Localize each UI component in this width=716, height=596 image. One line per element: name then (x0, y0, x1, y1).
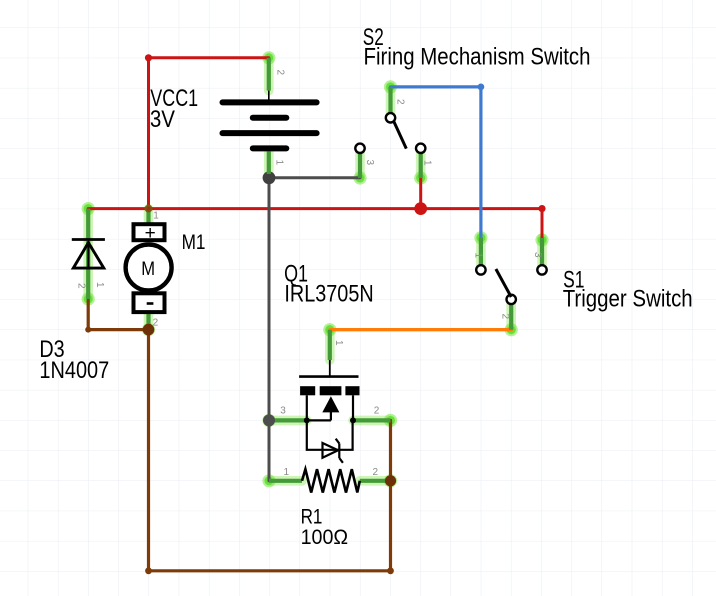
svg-text:1: 1 (153, 210, 159, 221)
svg-text:2: 2 (500, 314, 511, 320)
svg-text:2: 2 (275, 70, 286, 76)
svg-text:2: 2 (395, 99, 406, 105)
node brown small dot bottom left (145, 567, 152, 574)
wire blue S2 pin2 to S1 pin1 horizontal (391, 85, 481, 88)
wire gray battery to S2 pin3 (269, 176, 360, 179)
Q1 pin2 stub (353, 418, 391, 422)
svg-text:1: 1 (94, 282, 105, 288)
switch S2 pin2 circle (386, 113, 395, 122)
switch S2 pin3 circle (355, 144, 364, 153)
wire red VCC top horizontal (149, 56, 269, 59)
svg-text:Firing Mechanism Switch: Firing Mechanism Switch (364, 43, 591, 70)
switch S2 common circle (416, 144, 425, 153)
S2 pin3 stub (358, 153, 362, 178)
motor M1 minus box (134, 293, 165, 312)
S1 pin3 stub (540, 238, 544, 266)
svg-text:3: 3 (364, 160, 375, 166)
node gray dot battery junction (263, 171, 276, 184)
diode pin2 stub (86, 241, 90, 299)
svg-text:1: 1 (274, 160, 285, 166)
pin highlight glow underlay (82, 51, 549, 487)
wire gray Q1 pin3 down to R1 pin1 (268, 420, 271, 480)
svg-text:2: 2 (153, 317, 159, 328)
node brown big dot R1 pin2 junction (385, 475, 396, 486)
svg-text:1: 1 (422, 160, 433, 166)
wire brown diode to motor bottom (88, 299, 148, 330)
S1 pin2 stub (509, 304, 513, 330)
node red junction big dot (414, 202, 427, 215)
node brown big dot motor minus junction (143, 324, 155, 336)
svg-text:1: 1 (333, 340, 344, 346)
svg-text:Trigger Switch: Trigger Switch (563, 285, 693, 312)
battery pin1 stub (267, 152, 271, 175)
S2 pin1 stub (419, 153, 423, 178)
R1 pin1 stub (269, 479, 302, 483)
svg-text:M1: M1 (182, 230, 206, 254)
switch S1 pin1 circle (476, 265, 485, 274)
svg-text:3: 3 (280, 405, 286, 416)
svg-text:2: 2 (76, 283, 87, 289)
svg-text:100Ω: 100Ω (301, 525, 349, 549)
wire brown right vertical Q1 pin2 down (389, 420, 392, 570)
wire red bus horizontal (88, 207, 542, 210)
battery VCC1 (223, 91, 317, 149)
svg-text:+: + (145, 223, 156, 244)
motor M1 plus box (134, 224, 165, 240)
motor M1 body circle (126, 245, 172, 291)
node brown small dot bottom right (387, 567, 394, 574)
node blue corner dot (478, 84, 485, 91)
diode pin1 stub (86, 209, 90, 239)
svg-text:1: 1 (284, 467, 290, 478)
svg-text:IRL3705N: IRL3705N (284, 281, 373, 308)
motor M1 minus sign (147, 302, 154, 305)
motor pin1 stub (146, 209, 150, 224)
mosfet Q1 symbol (299, 360, 359, 463)
R1 pin2 stub (360, 479, 391, 483)
node VCC corner dot (145, 54, 152, 61)
svg-text:2: 2 (374, 405, 380, 416)
svg-text:2: 2 (373, 467, 379, 478)
switch S1 pin3 circle (537, 265, 546, 274)
svg-text:3: 3 (532, 252, 543, 258)
wire brown motor down left rail (149, 330, 391, 571)
wire red bus corner down to S1 pin3 (541, 209, 544, 238)
wire blue vertical (479, 87, 482, 238)
node olive junction dot motor pin1 / red bus (145, 205, 153, 213)
switch S2 lever (394, 121, 407, 148)
node brown small dot diode corner (85, 327, 91, 333)
resistor R1 zigzag (302, 469, 360, 492)
svg-text:M: M (141, 258, 155, 280)
wire red VCC left vertical (147, 58, 150, 209)
S1 pin1 stub (479, 238, 483, 266)
battery pin2 stub (267, 58, 271, 91)
node red corner dot (538, 205, 545, 212)
motor pin2 stub (146, 313, 150, 330)
green pin stubs (88, 58, 542, 481)
wire red S2 common to bus (419, 178, 422, 209)
Q1 gate stub (328, 330, 332, 360)
wire orange S1 pin2 to Q1 gate (330, 328, 511, 331)
S2 pin2 stub (388, 87, 392, 113)
switch S1 lever (496, 269, 511, 297)
svg-text:3V: 3V (150, 106, 176, 133)
Q1 pin3 stub (269, 418, 307, 422)
svg-text:1: 1 (473, 253, 484, 259)
wire gray battery down to Q1 pin3 (268, 178, 271, 421)
svg-text:1N4007: 1N4007 (39, 357, 109, 384)
node gray dot Q1 pin3 junction (263, 414, 275, 426)
switch S1 pin2 circle (507, 295, 516, 304)
diode D3 symbol (72, 240, 105, 269)
